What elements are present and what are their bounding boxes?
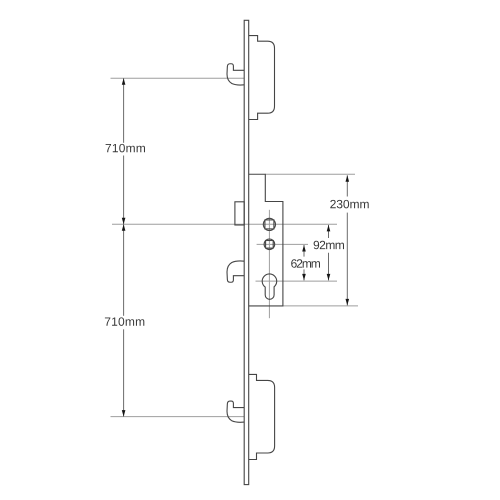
label 710mm top <box>106 144 145 153</box>
central gearbox outline <box>249 174 283 306</box>
middle hook bolt (flipped) <box>227 261 244 282</box>
extension line top hook (710mm top datum) <box>111 77 245 79</box>
dimension line 92mm <box>328 225 330 281</box>
faceplate fill <box>244 20 249 484</box>
dimension line 710mm bottom <box>123 224 125 416</box>
dimension line 230mm <box>346 175 348 305</box>
label 710mm bottom <box>105 317 144 326</box>
centre line through gearbox <box>268 210 270 318</box>
dimension line 710mm top <box>123 78 125 224</box>
latch block left of faceplate <box>235 202 244 225</box>
extension line gearbox bottom (230mm datum) <box>283 305 358 307</box>
bottom hook bolt <box>227 401 244 422</box>
dimension line 62mm <box>303 245 305 280</box>
extension line lower spindle (62mm datum) <box>257 243 308 245</box>
extension line bottom hook (710mm bottom datum) <box>111 416 245 418</box>
faceplate <box>244 20 249 484</box>
label 230mm <box>330 200 368 209</box>
upper spindle hole (circle + square) <box>263 218 275 230</box>
bottom keep/case body <box>249 374 275 459</box>
top keep/case body <box>249 36 275 120</box>
extension line spindle centre (shared 710mm/92mm datum) <box>112 223 337 225</box>
label 92mm <box>314 241 344 250</box>
extension line gearbox top (230mm datum) <box>265 173 355 175</box>
top hook bolt <box>227 64 244 85</box>
label 62mm <box>291 259 320 268</box>
lower spindle hole (circle + square) <box>264 239 275 250</box>
extension line cylinder centre (62/92mm datum) <box>256 280 338 282</box>
euro cylinder cutout <box>262 274 277 299</box>
